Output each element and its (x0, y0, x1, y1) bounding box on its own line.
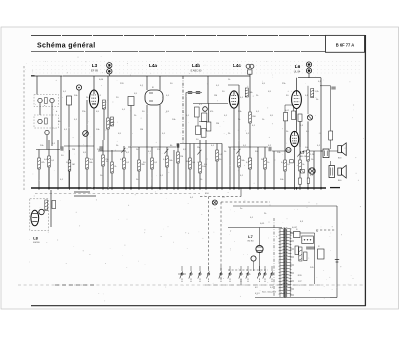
magic eye target (39, 209, 44, 214)
switch contact (207, 271, 210, 282)
wire tap 6 (290, 280, 294, 282)
wire loop bottom (330, 297, 337, 299)
wire mains top (228, 227, 282, 229)
resistor osc agc (249, 158, 252, 169)
detector box 1 (195, 107, 200, 117)
wire contact feed x200 (199, 266, 201, 271)
svg-text:2x: 2x (316, 231, 318, 233)
svg-text:1M: 1M (214, 95, 217, 97)
wire band a (60, 76, 62, 150)
wire L4a left down (146, 105, 148, 188)
switch contact (189, 271, 192, 282)
wire avc (182, 76, 184, 144)
wire bottom run (255, 297, 330, 299)
wire heater left (178, 273, 186, 275)
wire L4c aux (238, 85, 240, 147)
input coil 3 (38, 119, 42, 123)
input filter dashed box 2 (34, 115, 59, 128)
wire vertical x112 (111, 150, 113, 188)
wire tap 4 (290, 264, 294, 266)
dial lamp (212, 200, 217, 205)
speaker 2 (338, 165, 346, 178)
wire r down (48, 168, 50, 188)
frame left dashed edge (23, 66, 25, 190)
wire coupling c (299, 121, 301, 147)
switch contact (270, 271, 273, 282)
speaker 1 (338, 143, 346, 156)
wire L4a right down (159, 105, 161, 188)
osc coil box (67, 96, 72, 105)
wire link b (64, 145, 94, 147)
switch arrows (121, 148, 301, 157)
resistor near bus a (298, 178, 301, 184)
output transformer box (323, 149, 329, 158)
wire vertical x314 (313, 151, 315, 188)
wire vertical x274 (273, 151, 275, 188)
wire contact feed x241 (240, 266, 242, 271)
wire vertical x265 (264, 147, 266, 188)
wire contact feed x259.5 (259, 266, 261, 271)
capacitor link4 (269, 147, 271, 151)
mini box near trimmer (290, 160, 294, 163)
bus junction ticks (39, 188, 321, 190)
resistor screen (111, 117, 114, 126)
wire coupling a (284, 105, 286, 113)
capacitor link3 (177, 143, 179, 147)
svg-text:2M: 2M (72, 149, 75, 151)
tube L3 EF89 (89, 90, 98, 108)
wire L4a top left (146, 76, 148, 90)
input filter dashed box (34, 95, 59, 107)
wire tap 3 (290, 256, 294, 258)
wire fuse to sel (300, 232, 315, 234)
resistor at x39 (38, 158, 41, 169)
wire L6 top (298, 77, 321, 79)
wire vertical x250 (249, 90, 251, 188)
wire L6 to L5 (296, 109, 298, 132)
tube L6 UL84 (292, 91, 302, 109)
wire L7 up (259, 228, 261, 246)
wire vertical x87 (86, 140, 88, 188)
wire tap 0 (290, 232, 294, 234)
svg-text:2M: 2M (197, 147, 200, 149)
svg-text:1M: 1M (140, 129, 143, 131)
wire det top (186, 92, 202, 94)
bus junction dots (48, 187, 322, 189)
wire vertical x139 (138, 147, 140, 188)
resistor at x69.5 (68, 160, 71, 171)
detector box 5 (201, 129, 206, 138)
IF transformer L4a (145, 90, 163, 105)
svg-text:1M: 1M (186, 161, 189, 163)
resistor at x139 (138, 160, 141, 171)
wire tap 5 (290, 272, 294, 274)
plug marks (335, 259, 339, 261)
resistor bleeder (299, 247, 302, 261)
tube L5 ELL80 (290, 131, 298, 146)
svg-text:Schéma général: Schéma général (37, 43, 96, 50)
wire vertical x194 (193, 144, 195, 189)
box on HT right wire (329, 131, 333, 140)
resistor at x285 (284, 160, 287, 171)
selector box right (318, 249, 325, 259)
wire IF left down (130, 106, 132, 189)
detector box 2 (202, 113, 207, 122)
resistor at x308 (307, 150, 310, 161)
input trimmer rect 1 (45, 98, 48, 104)
wire vertical x58 (57, 140, 59, 188)
wire coil link (39, 103, 41, 115)
ground bus (31, 187, 326, 189)
wire link e (180, 143, 222, 145)
pickup jack over L6 (306, 62, 311, 73)
resistor near bus b (307, 178, 309, 183)
wire vertical x190 (189, 144, 191, 189)
wire sel down (314, 233, 316, 284)
scan noise speckles (25, 56, 364, 301)
svg-text:EZ 80: EZ 80 (248, 241, 255, 243)
wire L4a top right (159, 76, 161, 90)
resistor L4c anode (245, 88, 248, 97)
tube L7 EZ80 rectifier (256, 245, 263, 252)
wire vertical x124 (123, 146, 125, 188)
wire vertical x49 (48, 140, 50, 188)
wire contact feed x272 (271, 266, 273, 271)
wire vertical x178 (177, 144, 179, 189)
mains transformer primary winding (279, 228, 285, 297)
L7 anode bars (257, 251, 263, 253)
wire vertical x206 (205, 140, 207, 188)
resistor at x217 (216, 150, 219, 161)
wire dashed top right (316, 229, 335, 231)
wire coupling d (307, 86, 309, 114)
wire link h (303, 150, 322, 152)
wire link a (36, 149, 60, 151)
frame right edge (364, 35, 366, 306)
input coil 2 (50, 98, 54, 102)
tube L4c EF89 (229, 91, 238, 108)
wire dashed heater d (221, 201, 270, 203)
wire link f (228, 146, 268, 148)
detector diode circle (203, 107, 208, 112)
capacitor (196, 92, 200, 94)
magic eye dashed box (30, 199, 49, 231)
wire to fuse (290, 232, 293, 234)
wire antenna into filter (36, 76, 38, 95)
resistor at x103 (102, 155, 105, 166)
wire contact drop (240, 279, 242, 285)
resistor at x167 (166, 156, 169, 167)
wire L6 grid (296, 78, 298, 91)
antenna terminal dash (31, 75, 35, 77)
wire contact feed x208.7 (208, 266, 210, 271)
wire vertical x300 (299, 121, 301, 188)
detector box 4 (196, 126, 201, 134)
svg-text:Sect. 110-245V: Sect. 110-245V (262, 291, 277, 294)
wire det v (197, 117, 199, 126)
svg-text:L4c: L4c (233, 63, 241, 68)
wire vertical x174 (173, 150, 175, 188)
wire vertical x258 (257, 147, 259, 188)
wire contact feed x182 (181, 266, 183, 271)
wire heater row dashed (228, 269, 268, 271)
switch contact (246, 271, 249, 282)
switch contact (228, 271, 231, 282)
IF box left (128, 97, 134, 106)
wire trimmer to bus (108, 74, 110, 76)
input trimmer rect 2 (45, 118, 48, 124)
wire HT rail (233, 205, 337, 207)
wire coil down (46, 135, 48, 150)
wire tap 8 (290, 294, 294, 296)
wire vertical x39 (38, 150, 40, 189)
svg-text:EM 80: EM 80 (33, 242, 40, 244)
wire tap 2 (290, 248, 294, 250)
wire dashed heater c (220, 202, 222, 279)
switch contact (198, 271, 201, 282)
wire dashdot mains (273, 218, 275, 297)
padder circle (83, 131, 89, 137)
wire vertical x103 (102, 140, 104, 188)
frame top rule (31, 34, 365, 36)
wire right loop (336, 206, 338, 298)
wire output anode (320, 78, 322, 188)
wire vertical x152 (151, 147, 153, 188)
input coil 4 (45, 130, 49, 134)
resistor at x190 (189, 158, 192, 169)
oscillator circle (76, 85, 81, 90)
wire det feed (207, 76, 209, 104)
wire vertical x69.5 (69, 150, 71, 188)
wire link d (128, 146, 176, 148)
dashed rail below bus (35, 192, 200, 194)
wire jack down (308, 74, 310, 78)
wire L4c link (228, 84, 239, 86)
svg-text:2M: 2M (216, 123, 219, 125)
wire vertical x200 (199, 140, 201, 188)
wire contact feed x191 (190, 266, 192, 271)
switch contact (263, 271, 266, 282)
switch contact (257, 271, 260, 282)
wire r osc down (103, 109, 105, 140)
darker dash segments on lower rule (55, 284, 95, 286)
wire coupling b (293, 105, 295, 111)
wire magic eye feed (50, 190, 52, 227)
wire trimmer L4c down (249, 74, 251, 90)
resistor at x265 (264, 158, 267, 169)
wire contact feed x230 (229, 266, 231, 271)
magic circle mid (307, 115, 312, 120)
coupling box b (292, 111, 296, 119)
trimmer circle small (286, 148, 291, 153)
speaker 2 transformer (329, 166, 335, 178)
svg-text:6,3 V: 6,3 V (255, 293, 260, 295)
electrolytic a (295, 246, 298, 255)
noise rows top (32, 62, 362, 74)
wire link c (98, 150, 126, 152)
wire contact feed x248 (247, 266, 249, 271)
wire dashed heater a (200, 196, 241, 198)
resistor magic eye (45, 200, 48, 211)
wire tap 1 (290, 240, 294, 242)
svg-text:47k: 47k (210, 111, 213, 113)
switch contact (219, 271, 222, 282)
electrolytic b (304, 252, 307, 261)
resistor osc plate (103, 100, 106, 109)
wire coupling top (285, 104, 294, 106)
resistor at x152 (151, 158, 154, 169)
wire spk link (330, 161, 332, 166)
mains transformer secondary winding (286, 228, 292, 297)
indicator circle (309, 168, 315, 174)
capacitor mains b (310, 247, 314, 249)
wire vertical x167 (166, 147, 168, 188)
wire transformer to speaker (329, 150, 338, 152)
wire vertical x217 (216, 144, 218, 189)
dashed rule lower (18, 284, 364, 286)
wire HT top link (320, 85, 331, 87)
svg-text:EF 89: EF 89 (91, 68, 98, 72)
bus stub right (330, 187, 340, 189)
wire oscillator down (78, 90, 80, 188)
wire vertical x308 (307, 121, 309, 188)
trimmer pair over L4c (246, 64, 254, 74)
resistor at x178 (177, 152, 180, 163)
wire coil 2 down (51, 103, 53, 146)
wire L3 cathode down (93, 108, 95, 188)
wire L7 down (259, 253, 261, 271)
resistor L6 grid (311, 89, 314, 98)
wire osc coil down (68, 105, 70, 188)
capacitor (188, 92, 192, 94)
resistor at x124 (123, 158, 126, 169)
resistor at x87 (86, 158, 89, 169)
wire HT right (330, 86, 332, 149)
x-box switch (301, 169, 305, 173)
wire detector rail (193, 103, 228, 105)
reference box B 6F 77 A (326, 35, 365, 52)
wire L4c down (233, 108, 235, 188)
wire contact feed x265 (264, 266, 266, 271)
wire dashed heater b (208, 197, 210, 272)
fuse box (294, 232, 301, 238)
box near L8 (52, 201, 56, 209)
svg-text:L8: L8 (33, 237, 37, 241)
detector box 3 (207, 122, 211, 131)
resistor at x250 (249, 112, 252, 123)
wire pilot down (253, 261, 255, 271)
tube L8 EM80 (31, 210, 39, 226)
switch contact (180, 271, 183, 282)
mains transformer core (284, 228, 286, 298)
resistor at x49 (48, 156, 51, 167)
wire det mid (208, 104, 210, 123)
capacitor link1 (61, 146, 63, 150)
resistor at x300 (299, 160, 302, 171)
resistor at x108 (107, 118, 110, 129)
svg-text:L7: L7 (248, 235, 252, 239)
capacitor mains a (306, 247, 310, 249)
frame bottom edge (31, 305, 366, 307)
voltage selector (302, 236, 314, 244)
resistor at x200 (199, 162, 202, 173)
svg-text:L6: L6 (295, 64, 301, 69)
antenna jack over L3 (107, 63, 112, 74)
wire to output transformer (321, 150, 323, 152)
coupling box c (298, 114, 302, 121)
resistor at x112 (111, 162, 114, 173)
wire L5 down (294, 147, 296, 188)
title underline rule (31, 51, 365, 53)
svg-text:B 6F 77 A: B 6F 77 A (336, 42, 355, 47)
input coil 1 (38, 98, 42, 102)
wire L3 grid (93, 76, 95, 90)
svg-text:1M: 1M (72, 164, 75, 166)
wire vertical x239 (238, 147, 240, 188)
wire det link (199, 121, 207, 123)
dial cord dashes (74, 191, 90, 193)
svg-text:1M: 1M (180, 156, 183, 158)
wire contact feed x221 (220, 266, 222, 271)
antenna bus wire (31, 75, 250, 77)
wire vertical x230 (229, 147, 231, 188)
wire vertical x222 (221, 144, 223, 189)
wire det left down (185, 93, 187, 189)
wire osc b (86, 100, 88, 140)
wire link g (272, 150, 290, 152)
wire vertical x108 (107, 76, 109, 188)
coupling box a (284, 113, 288, 121)
resistor at x239 (238, 156, 241, 167)
pilot circle (251, 256, 256, 261)
wire vertical x285 (284, 121, 286, 188)
switch contact (239, 271, 242, 282)
capacitor HT a (331, 87, 335, 89)
wire tap 7 (290, 288, 294, 290)
capacitor link2 (100, 146, 102, 150)
wire heater drop (240, 188, 242, 197)
